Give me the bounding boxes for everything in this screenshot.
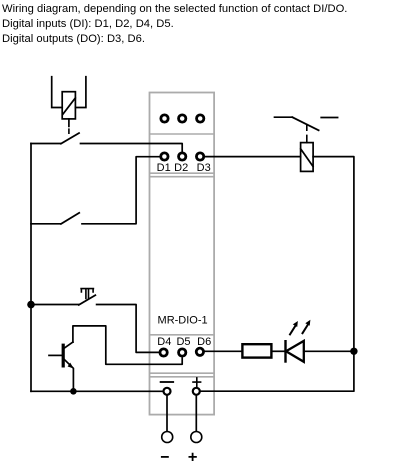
svg-text:MR-DIO-1: MR-DIO-1 [158,314,208,326]
module divider line 4b [150,376,213,378]
junction dot LED-rail [350,348,357,355]
switch S4 left segment [275,116,293,118]
relay coil K1 body [62,92,75,119]
switch S4 right segment [321,117,337,119]
label plus (bottom) [189,454,196,460]
label minus (module) [161,381,174,383]
transistor Q1 base bar [62,345,65,366]
connector circle minus [162,432,173,443]
svg-text:D3: D3 [197,162,211,174]
wire D6 to resistor [205,350,243,352]
terminal D3 [196,153,203,160]
label plus (module) [193,378,201,387]
relay coil K1 right terminal prong [75,77,86,108]
wire collector to D5 [73,326,182,364]
bottom left wire [31,390,162,392]
LED triangle [286,341,304,362]
terminal plus [193,388,200,395]
switch S1 blade [61,133,79,144]
module MR-DIO-1 outer body [150,93,215,415]
mechanical link dash K1 to S1 [68,129,70,133]
LED cathode bar [284,341,286,361]
svg-text:D4: D4 [157,336,171,348]
wire K2 to right rail and down to plus [201,157,354,392]
relay coil K1 left terminal prong [52,77,63,108]
terminal D4 [160,349,167,356]
relay coil K2 diagonal [301,149,313,167]
pushbutton S3 left wire [31,304,79,306]
wire S3 to D4 [97,305,159,353]
module divider line 4a [150,372,213,374]
label minus (bottom) [162,456,168,458]
terminal D6 [196,348,203,355]
transistor Q1 collector [64,342,73,348]
wire resistor to LED [271,350,285,352]
switch S2 left wire [31,223,60,225]
LED arrow 1 [290,326,295,335]
terminal minus [164,388,171,395]
module divider line 1 [150,133,213,135]
transistor Q1 base lead [49,354,61,356]
relay coil K2 body [301,143,314,172]
svg-text:D6: D6 [197,336,211,348]
module divider line 2a [150,172,213,174]
resistor R1 [242,344,271,357]
module indicator circle 1 [161,115,168,122]
wire minus terminal to connector [166,396,168,431]
module indicator circle 2 [179,115,186,122]
transistor Q1 emitter [64,359,74,391]
switch S2 blade [61,213,79,224]
module divider line 2b [150,176,213,178]
terminal D1 [161,153,168,160]
wire S1 to D2 [81,144,183,152]
transistor Q1 emitter arrowhead [68,363,74,369]
relay coil K1 diagonal [63,98,75,114]
pushbutton S3 actuator [81,289,93,299]
wire LED to rail [304,350,354,352]
wire plus terminal to connector [195,396,197,431]
switch S1 left wire [31,143,61,145]
LED arrow 2 [303,325,308,334]
terminal D2 [179,153,186,160]
junction dot emitter-bottom wire [70,388,77,395]
terminal D5 [179,349,186,356]
wire S2 to D1 [82,157,160,224]
pushbutton S3 blade [79,295,96,305]
relay coil K1 actuator stub [68,119,70,127]
module divider line 3 [150,334,213,336]
junction dot rail-S3 [27,301,35,309]
left rail wire [30,144,32,392]
switch S4 blade [292,117,318,130]
wire D3 to relay coil K2 [205,156,301,158]
mechanical link stub and dash S4 to K2 [306,125,308,143]
svg-text:D5: D5 [176,336,190,348]
connector circle plus [191,432,202,443]
svg-text:D1: D1 [157,162,171,174]
svg-text:D2: D2 [174,162,188,174]
module indicator circle 3 [197,115,204,122]
